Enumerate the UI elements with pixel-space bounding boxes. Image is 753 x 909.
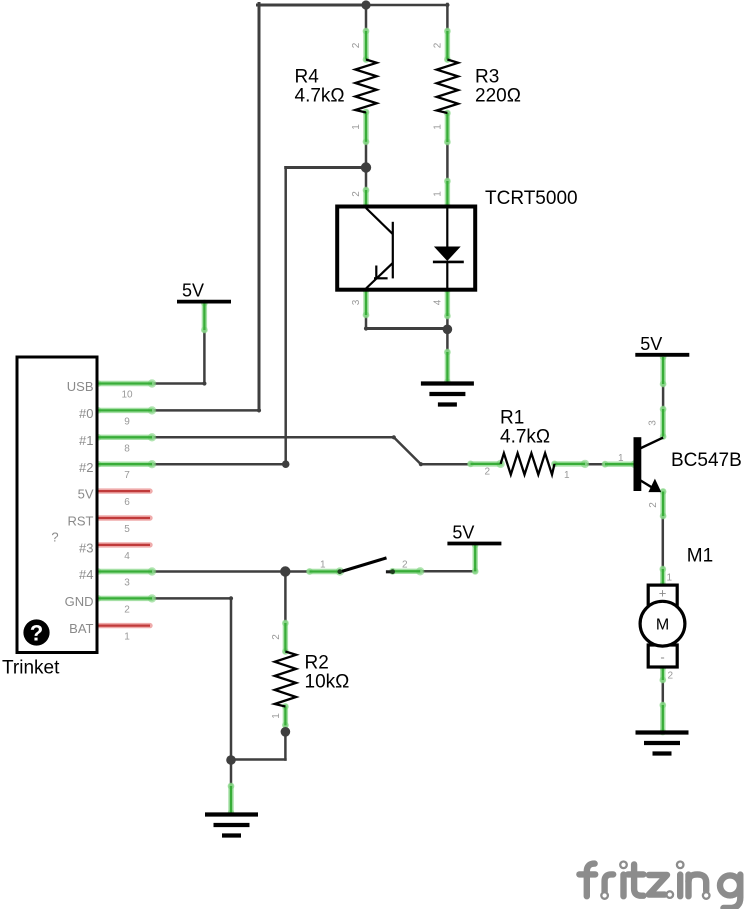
svg-text:R3: R3 bbox=[475, 67, 499, 88]
svg-text:BAT: BAT bbox=[69, 621, 93, 636]
svg-text:4.7kΩ: 4.7kΩ bbox=[295, 86, 345, 107]
svg-text:2: 2 bbox=[433, 42, 444, 48]
svg-text:8: 8 bbox=[124, 443, 130, 454]
svg-text:3: 3 bbox=[648, 420, 659, 426]
svg-text:1: 1 bbox=[351, 124, 362, 130]
svg-text:M1: M1 bbox=[687, 546, 713, 567]
svg-text:5V: 5V bbox=[640, 334, 662, 354]
svg-text:?: ? bbox=[51, 530, 58, 545]
svg-text:R2: R2 bbox=[305, 653, 329, 674]
svg-text:TCRT5000: TCRT5000 bbox=[485, 188, 578, 209]
svg-text:M: M bbox=[656, 617, 669, 634]
svg-text:2: 2 bbox=[668, 671, 674, 682]
svg-text:5V: 5V bbox=[78, 487, 94, 502]
svg-text:1: 1 bbox=[433, 124, 444, 130]
svg-text:R1: R1 bbox=[500, 408, 524, 429]
svg-text:6: 6 bbox=[124, 497, 130, 508]
svg-text:#4: #4 bbox=[79, 567, 93, 582]
svg-text:BC547B: BC547B bbox=[671, 450, 742, 471]
svg-text:4: 4 bbox=[433, 299, 444, 305]
svg-text:#0: #0 bbox=[79, 406, 93, 421]
svg-text:#3: #3 bbox=[79, 541, 93, 556]
svg-text:1: 1 bbox=[618, 453, 624, 464]
svg-text:2: 2 bbox=[351, 191, 362, 197]
svg-text:USB: USB bbox=[67, 379, 94, 394]
svg-text:GND: GND bbox=[65, 594, 94, 609]
svg-text:1: 1 bbox=[124, 632, 130, 643]
svg-text:2: 2 bbox=[402, 560, 408, 571]
svg-text:RST: RST bbox=[68, 514, 94, 529]
svg-text:10: 10 bbox=[121, 390, 133, 401]
svg-text:220Ω: 220Ω bbox=[475, 86, 521, 107]
svg-text:5: 5 bbox=[124, 524, 130, 535]
svg-text:1: 1 bbox=[433, 191, 444, 197]
svg-text:4: 4 bbox=[124, 551, 130, 562]
svg-text:2: 2 bbox=[124, 604, 130, 615]
svg-text:4.7kΩ: 4.7kΩ bbox=[500, 427, 550, 448]
svg-text:+: + bbox=[659, 586, 667, 601]
svg-text:1: 1 bbox=[271, 713, 282, 719]
svg-text:5V: 5V bbox=[452, 523, 474, 543]
svg-text:R4: R4 bbox=[295, 67, 320, 88]
svg-text:1: 1 bbox=[564, 470, 570, 481]
svg-text:2: 2 bbox=[485, 467, 491, 478]
svg-text:#2: #2 bbox=[79, 460, 93, 475]
svg-text:#1: #1 bbox=[79, 433, 93, 448]
svg-text:Trinket: Trinket bbox=[2, 658, 60, 679]
svg-text:3: 3 bbox=[124, 578, 130, 589]
svg-text:2: 2 bbox=[271, 634, 282, 640]
svg-text:1: 1 bbox=[320, 560, 326, 571]
svg-text:?: ? bbox=[30, 621, 43, 646]
svg-text:10kΩ: 10kΩ bbox=[305, 672, 350, 693]
svg-text:-: - bbox=[660, 650, 664, 665]
svg-text:5V: 5V bbox=[182, 281, 204, 301]
svg-text:9: 9 bbox=[124, 416, 130, 427]
svg-text:2: 2 bbox=[648, 502, 659, 508]
svg-text:2: 2 bbox=[351, 42, 362, 48]
svg-text:3: 3 bbox=[351, 299, 362, 305]
svg-text:7: 7 bbox=[124, 470, 130, 481]
svg-text:1: 1 bbox=[667, 573, 673, 584]
